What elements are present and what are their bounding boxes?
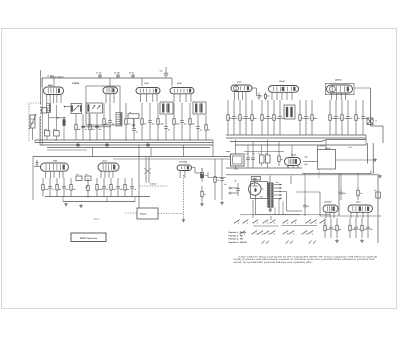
resistor R31 47K <box>324 218 331 238</box>
resistor R25 220K <box>96 178 104 197</box>
wire AVC left <box>49 117 66 119</box>
wire stub into V9 <box>34 160 41 167</box>
tube V4 6AV6 <box>170 82 194 94</box>
wire switch row 1a <box>253 225 279 227</box>
junction X <box>144 168 151 174</box>
switch S21 <box>266 241 269 244</box>
svg-text:.05: .05 <box>168 129 170 132</box>
tuning capacitor VC1 <box>30 114 37 140</box>
switch S25 <box>313 241 316 244</box>
svg-text:.01: .01 <box>85 128 87 131</box>
tube V1 6BE6 converter <box>44 84 64 95</box>
wire AC feed left <box>208 172 226 178</box>
label 1 TR <box>348 146 352 149</box>
svg-text:100: 100 <box>184 123 187 126</box>
switch S3 <box>252 220 258 224</box>
svg-text:.02: .02 <box>200 129 202 132</box>
switch S22 <box>286 241 289 244</box>
svg-text:220: 220 <box>128 123 131 126</box>
svg-text:470: 470 <box>302 117 305 120</box>
resistor R2b box <box>53 105 59 140</box>
resistor R22 470K <box>42 178 50 197</box>
position list <box>229 231 247 244</box>
label +LB b <box>304 163 308 166</box>
ground G7 <box>378 175 382 178</box>
switch S4 <box>262 220 268 224</box>
switch S7 <box>291 220 297 224</box>
wire lower line B <box>226 151 284 153</box>
svg-text:d (M) (culture) with absorbent: d (M) (culture) with absorbent volume of… <box>234 258 376 261</box>
capacitor C24 .02 <box>361 100 367 135</box>
label rail <box>375 120 377 123</box>
svg-text:6AQ5: 6AQ5 <box>291 154 296 157</box>
wire switch feed <box>240 214 330 216</box>
switch S2 <box>242 220 248 224</box>
svg-text:.05: .05 <box>112 123 114 126</box>
trimmer above bus <box>160 67 169 78</box>
wire bus A1 AVC <box>35 139 213 141</box>
tube V9 6BD6 <box>41 160 69 172</box>
pins of V1 <box>47 95 61 104</box>
output transformer box <box>318 145 336 169</box>
capacitor C22 .05 <box>334 100 340 135</box>
capacitor C11 .05 <box>164 115 170 140</box>
pins of V3 <box>141 94 158 102</box>
svg-text:Position 4 : AM-FM: Position 4 : AM-FM <box>229 241 247 244</box>
ground G3 <box>182 219 186 222</box>
svg-text:Position 3 : AM: Position 3 : AM <box>229 238 244 241</box>
switch S14 <box>263 231 269 235</box>
rectifier enclosure box <box>251 182 268 199</box>
label ohms <box>94 217 100 220</box>
resistor R3 47K <box>89 114 96 140</box>
capacitor C7 100 <box>95 114 101 140</box>
resistor R19 4.7K <box>341 100 348 135</box>
svg-text:C1 .05: C1 .05 <box>96 72 101 75</box>
ground G5 <box>360 239 364 242</box>
tube V7 12BA6 <box>327 79 353 93</box>
capacitor C20 100 <box>278 100 284 135</box>
capacitor C10 100 <box>148 103 154 140</box>
tube V10 6AL5 det <box>98 160 119 172</box>
ground G1 <box>64 203 68 206</box>
svg-text:.01: .01 <box>308 117 310 120</box>
IF transformer T4 <box>193 102 206 114</box>
volume pot R28 <box>85 178 89 198</box>
resistor R5 220 <box>125 103 131 140</box>
tube V5 17Z3 <box>231 80 252 91</box>
rectifier label box <box>252 177 261 181</box>
svg-text:17D6: 17D6 <box>144 82 149 85</box>
label top-left <box>47 75 54 78</box>
resistor R34 10K <box>361 218 368 238</box>
capacitor C5 electrolytic <box>63 118 66 140</box>
wire transformer top <box>255 176 291 190</box>
capacitor C16 on bus <box>146 143 150 148</box>
wire mid rail D <box>338 174 340 216</box>
capacitor C21 .01 <box>304 100 310 135</box>
svg-text:20: 20 <box>307 205 309 208</box>
svg-text:result, NH parliament (precise: result, NH parliament (precise failure) … <box>234 261 314 264</box>
svg-text:12AV6: 12AV6 <box>279 80 285 83</box>
ground G9 <box>200 203 204 206</box>
wire drop to V3 <box>141 78 143 86</box>
switch S8 <box>305 220 311 224</box>
wire ups from lower bus <box>236 163 289 168</box>
svg-text:47: 47 <box>204 193 206 196</box>
capacitor C19 .05 <box>266 100 272 135</box>
resistor R23 1M <box>56 178 62 197</box>
wire drop to V1 <box>53 78 55 87</box>
wire left riser A <box>39 117 41 145</box>
capacitor C29 100 <box>62 178 68 197</box>
svg-text:a four (4)EFG show (1/2/3) set: a four (4)EFG show (1/2/3) set as the co… <box>238 256 378 259</box>
diode box D1 <box>64 104 82 114</box>
resistor R9 10K <box>189 103 196 140</box>
wire drop to V4 <box>171 78 173 86</box>
pins of V10 <box>101 171 113 178</box>
wire drops to lower row <box>236 140 293 158</box>
resistor R27 1M <box>124 178 130 197</box>
wire top bus C <box>33 156 230 158</box>
capacitor C8 .05 <box>108 103 114 140</box>
wire AVC feed <box>82 113 111 128</box>
wire bus A2 B+ <box>35 140 213 143</box>
svg-text:6AL7: 6AL7 <box>103 160 108 163</box>
tap stub rail <box>378 215 382 217</box>
wire switch row 1b <box>282 224 318 226</box>
wire riser to OUT box <box>318 140 327 150</box>
wire drop to V2 <box>109 78 111 86</box>
svg-text:2.2: 2.2 <box>375 120 377 123</box>
svg-text:.05: .05 <box>224 183 226 186</box>
pins of V11 <box>180 171 185 179</box>
resistor R4 1M <box>103 103 109 140</box>
svg-text:220: 220 <box>242 117 245 120</box>
switch S20 <box>262 241 265 244</box>
junction dots bus A <box>55 139 190 140</box>
capacitor C37 .01 <box>329 218 335 238</box>
svg-text:6786: 6786 <box>53 160 57 163</box>
wire bus A5 short <box>47 149 87 151</box>
svg-text:150: 150 <box>205 174 208 177</box>
switch S18 <box>301 231 307 235</box>
switch S10 <box>319 220 325 224</box>
resistor R35 <box>357 186 363 200</box>
svg-text:100: 100 <box>160 70 163 73</box>
svg-text:6BE6: 6BE6 <box>48 84 53 87</box>
svg-text:100: 100 <box>78 128 81 131</box>
pins of V6 <box>272 92 292 100</box>
wire top bus C2 <box>113 158 230 160</box>
svg-text:100: 100 <box>152 123 155 126</box>
wire V5 tail <box>252 88 257 96</box>
pins of V5 <box>235 92 247 101</box>
resistor R33 220K <box>349 218 357 238</box>
wire lower bus B right <box>302 171 371 174</box>
switch S13 <box>257 231 263 235</box>
svg-text:6AV6: 6AV6 <box>177 82 182 85</box>
pins of V4 <box>174 94 191 102</box>
svg-text:.01: .01 <box>52 188 54 191</box>
svg-text:LB 6AU7: LB 6AU7 <box>324 200 332 203</box>
wire risers C mid <box>139 157 149 209</box>
switch S24 <box>309 241 312 244</box>
tube V13 6AU7 <box>323 200 338 212</box>
dashed wire out of OUT <box>158 213 184 215</box>
oscillator section box <box>86 86 120 125</box>
detector box D2 <box>86 103 103 113</box>
wire right rail D <box>377 174 379 243</box>
svg-text:.01: .01 <box>134 188 136 191</box>
pins of V14 <box>351 212 368 218</box>
wire left riser A2 <box>41 78 43 145</box>
svg-text:C4085: C4085 <box>72 82 80 85</box>
wire rect bottom <box>256 195 300 214</box>
label +LB a <box>304 156 308 159</box>
switch S1 <box>234 220 240 224</box>
wire taps to switches <box>275 198 283 215</box>
switch S12 <box>251 231 257 235</box>
svg-text:100: 100 <box>120 188 123 191</box>
footnote line 2 <box>234 258 376 261</box>
pins of V13 <box>326 212 334 218</box>
AC plug P1 <box>229 187 238 194</box>
wire tap out <box>282 192 302 212</box>
speaker field box <box>231 154 245 170</box>
resistor R15 33K <box>273 100 280 135</box>
svg-text:.05: .05 <box>234 180 236 183</box>
resistor R26 10K <box>110 178 117 197</box>
capacitor C18 100 <box>244 100 250 135</box>
tube V6 12AV6 <box>269 80 299 92</box>
resistor R37 interstage <box>265 93 270 101</box>
wire right rail B <box>371 88 384 143</box>
resistor R16 470 <box>299 100 305 135</box>
resistor R12 220 <box>239 100 245 135</box>
svg-text:Output: Output <box>140 213 147 216</box>
capacitor C31 100 <box>116 178 122 197</box>
wire bus B3 <box>230 140 366 142</box>
pins of V9 <box>45 171 63 178</box>
padder capacitor C4 <box>128 111 139 127</box>
switch S6 <box>282 220 288 224</box>
svg-text:.05: .05 <box>76 173 78 176</box>
wire D links <box>253 192 377 220</box>
resistor R29 150 <box>201 168 208 182</box>
wire D top links <box>305 173 358 196</box>
capacitor C3 on top bus <box>129 72 135 79</box>
capacitor C34 block <box>85 173 91 181</box>
resistor R29b <box>201 186 206 202</box>
tube V11 35W4 small <box>177 161 192 171</box>
wire riser C left <box>32 157 34 201</box>
switch S16 <box>282 231 288 235</box>
label C4085 <box>72 82 80 85</box>
coupling box <box>42 108 48 113</box>
svg-text:C3 47: C3 47 <box>129 72 134 75</box>
pins of V2 <box>106 94 114 103</box>
resistor R32 1M <box>336 218 342 238</box>
parts list box <box>71 233 106 242</box>
trimmer box X <box>367 118 373 125</box>
capacitor C9 .01 <box>132 119 138 140</box>
resistor R36 <box>278 152 284 167</box>
resistor R7 2.2M <box>157 103 164 140</box>
svg-text:2.2M: 2.2M <box>160 123 164 126</box>
wire bus B1 <box>226 135 366 145</box>
svg-text:Ant 4.7: Ant 4.7 <box>94 217 100 220</box>
tube V8 6AQ5 output <box>285 154 301 166</box>
wire V7 tail <box>354 87 371 89</box>
capacitor C12 100 <box>180 103 186 140</box>
pins of V7 <box>332 93 346 100</box>
svg-text:.05: .05 <box>106 188 108 191</box>
svg-text:OUTPUT: OUTPUT <box>319 145 327 148</box>
svg-text:47: 47 <box>261 95 263 98</box>
svg-text:6AU7: 6AU7 <box>356 200 361 203</box>
ground G4 <box>335 239 339 242</box>
capacitor C35 <box>220 159 226 204</box>
svg-text:C4: C4 <box>129 111 131 114</box>
capacitor C30 .05 <box>102 178 108 197</box>
antenna coil L2 <box>47 104 51 131</box>
footnote line 3 <box>234 261 314 264</box>
dashed drop below OUT box <box>318 169 320 178</box>
capacitor C40 <box>303 196 309 216</box>
svg-text:Position 2 : FM: Position 2 : FM <box>229 234 244 237</box>
tube V14 6AU7 <box>348 200 373 212</box>
wire top bus A <box>42 78 172 87</box>
svg-text:C41: C41 <box>343 192 346 195</box>
svg-text:.05: .05 <box>358 228 360 231</box>
switch S19 <box>307 231 313 235</box>
svg-text:C2 100: C2 100 <box>114 72 120 75</box>
capacitor C15 on bus <box>105 143 109 148</box>
ground G6 <box>373 158 377 161</box>
electrolytic C27 +50 <box>251 152 255 167</box>
capacitor C2 on top bus <box>114 72 120 79</box>
wire rails join <box>368 159 374 161</box>
resistor R2 100 <box>75 114 81 140</box>
switch S9 <box>311 220 317 224</box>
wire bus B2 <box>226 137 366 139</box>
resistor R1 box <box>44 113 50 141</box>
capacitor C13 .02 <box>196 115 202 140</box>
capacitor C41 <box>339 186 346 200</box>
svg-text:Position 1 : Phono: Position 1 : Phono <box>229 231 247 234</box>
oscillator coil L3 <box>116 113 122 127</box>
capacitor C42 interstage <box>257 93 262 101</box>
switch S23 <box>290 241 293 244</box>
switch S5 <box>270 220 276 224</box>
antenna dashed drop <box>28 104 30 141</box>
label band <box>50 75 65 78</box>
wire ground bus C <box>45 196 150 198</box>
svg-text:to 6AL7: to 6AL7 <box>150 183 157 186</box>
wire bus A4 ground <box>47 147 210 149</box>
output transformer box OUT <box>137 208 158 219</box>
capacitor C32 .01 <box>130 178 136 197</box>
capacitor C17 .01 <box>232 100 238 135</box>
transformer taps <box>274 184 282 200</box>
svg-text:.01: .01 <box>136 131 138 134</box>
capacitor C1 on top bus <box>96 72 102 79</box>
dashed drop V11 <box>183 175 185 218</box>
wire V11 right leads <box>192 167 203 173</box>
resistor R24 47K <box>70 178 77 197</box>
ground G8 transformer <box>268 209 272 212</box>
svg-text:.05: .05 <box>338 117 340 120</box>
pins of V8 <box>288 166 298 169</box>
dashed wire into OUT <box>125 212 137 214</box>
wire right rail B2 <box>367 143 369 164</box>
svg-text:.02: .02 <box>365 117 367 120</box>
rectifier tube V12 <box>249 183 261 195</box>
electrolytic C26 +40 <box>246 152 250 167</box>
wire ground bus C2 <box>63 197 135 202</box>
svg-text:100: 100 <box>66 188 69 191</box>
svg-text:US 35W4: US 35W4 <box>179 161 188 164</box>
wire bus B4 <box>235 144 366 146</box>
wire right rail B3 <box>372 143 374 174</box>
wire lower bus B <box>226 167 302 169</box>
discriminator transformer T5 <box>284 105 295 119</box>
svg-text:.01: .01 <box>236 117 238 120</box>
resistor R8 470K <box>173 103 181 140</box>
ground G2 <box>79 204 83 207</box>
svg-text:100: 100 <box>248 117 251 120</box>
svg-text:L1 OSC: L1 OSC <box>47 75 54 78</box>
svg-text:100: 100 <box>99 128 102 131</box>
svg-text:.01: .01 <box>333 228 335 231</box>
capacitor C23 100 <box>346 100 352 135</box>
capacitor C14 on bus <box>76 143 80 148</box>
resistor R20 1K <box>355 100 361 135</box>
antenna dashed wire <box>28 102 42 104</box>
resistor R11 47K <box>227 100 234 135</box>
svg-text:.05: .05 <box>85 173 87 176</box>
svg-text:100: 100 <box>370 228 373 231</box>
resistor R6 47K <box>141 103 148 140</box>
wire left riser top <box>40 70 42 141</box>
wire box to rail <box>336 159 368 161</box>
capacitor C36 line <box>234 180 240 197</box>
capacitor C33 block <box>76 173 82 181</box>
resistor R17 68K <box>311 100 318 135</box>
capacitor C38 .05 <box>354 218 360 238</box>
electrolytic C28b boxed <box>265 152 270 167</box>
wire bus-to-C risers <box>93 140 214 157</box>
resistor R14 1M <box>261 100 267 135</box>
resistor R10 1K <box>205 115 211 140</box>
svg-text:.05: .05 <box>270 117 272 120</box>
resistor R18 220K <box>329 100 337 135</box>
svg-text:100: 100 <box>350 117 353 120</box>
svg-text:12BF6A: 12BF6A <box>335 79 343 82</box>
wire V8 to box <box>303 161 318 163</box>
switch S11 <box>239 231 245 235</box>
IF transformer T3 <box>160 102 173 114</box>
footnote line 1 <box>238 256 378 259</box>
dashed wire to 6AL7 <box>139 183 168 187</box>
resistor R13 10K <box>251 100 258 135</box>
electrolytic C28a boxed <box>258 152 264 167</box>
capacitor C28 .01 <box>48 178 54 197</box>
switch S17 <box>288 231 294 235</box>
resistor R38 on rail <box>375 189 381 198</box>
capacitor C39 100 <box>366 218 372 238</box>
